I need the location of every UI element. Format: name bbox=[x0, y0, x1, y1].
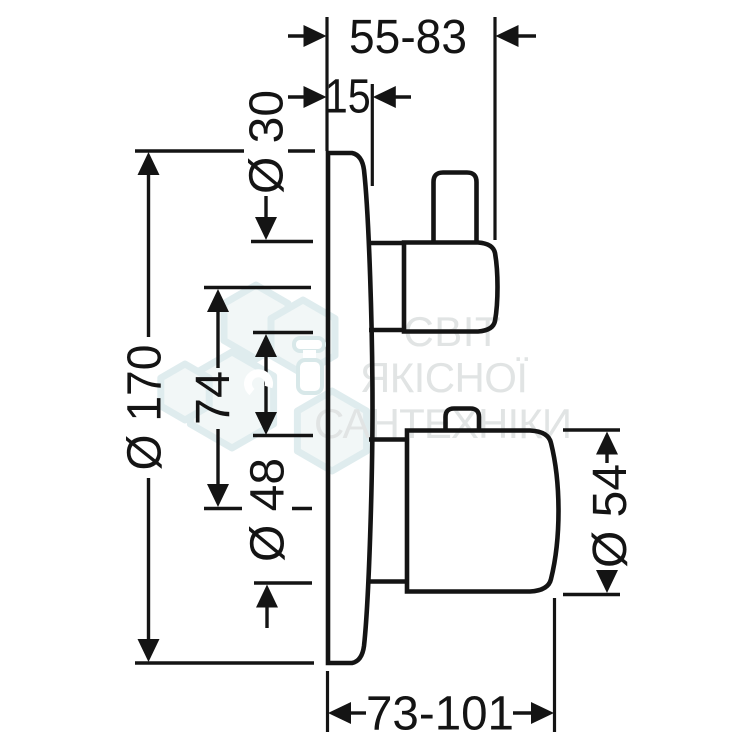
dimension 55-83 left arrow tail bbox=[288, 34, 305, 37]
dimension 73-101 left extension line bbox=[326, 671, 329, 732]
dimension 73-101 right arrow bbox=[531, 702, 554, 724]
dimension Ø170 bottom arrow bbox=[138, 639, 160, 662]
svg-text:Ø 48: Ø 48 bbox=[242, 458, 295, 562]
dimension Ø30 lower arrow bbox=[255, 334, 277, 357]
dimension Ø48 lower arrow bbox=[256, 585, 278, 608]
dimension Ø54 bottom arrow bbox=[596, 570, 618, 593]
thermostat knob bbox=[446, 409, 480, 430]
svg-text:15: 15 bbox=[325, 71, 371, 124]
watermark white curl bbox=[248, 373, 269, 392]
dimension 15 left arrow bbox=[304, 86, 327, 108]
escutcheon plate outline bbox=[328, 153, 373, 663]
dimension Ø48 upper arrow bbox=[255, 412, 277, 435]
dimension 74 line bbox=[216, 311, 219, 485]
shut-off valve knob bbox=[434, 173, 477, 243]
dimension 15 right extension line bbox=[371, 84, 374, 186]
dimension Ø54 line bbox=[605, 453, 608, 572]
watermark hexagon logo bbox=[161, 285, 367, 471]
shut-off valve handle body bbox=[404, 243, 498, 332]
svg-text:73-101: 73-101 bbox=[366, 688, 514, 741]
dimension Ø30 lower tick bbox=[253, 331, 313, 335]
dimension Ø54 bottom tick bbox=[563, 593, 620, 597]
svg-text:Ø 54: Ø 54 bbox=[584, 464, 637, 568]
shut-off valve sleeve bottom edge bbox=[369, 328, 404, 333]
dimension 55-83 right arrow tail bbox=[516, 34, 536, 37]
dimension 55-83 right extension line bbox=[493, 17, 496, 240]
dimension Ø170 top arrow bbox=[138, 152, 160, 175]
thermostat sleeve bottom edge bbox=[367, 579, 407, 584]
dimension 55-83 left arrow bbox=[304, 25, 327, 47]
svg-text:55-83: 55-83 bbox=[349, 11, 467, 64]
dimension 15 right arrow tail bbox=[393, 95, 411, 98]
dimension Ø30 upper tick bbox=[251, 240, 313, 244]
dimension 74 bottom tick bbox=[204, 507, 312, 511]
dimension 15 right arrow bbox=[373, 86, 396, 108]
dimension 74 top arrow bbox=[207, 289, 229, 312]
dimension Ø48 upper tick bbox=[253, 434, 313, 438]
connector line between Ø30 and Ø48 arrows bbox=[264, 356, 267, 413]
dimension Ø54 top arrow bbox=[596, 432, 618, 455]
svg-text:САНТЕХНІКИ: САНТЕХНІКИ bbox=[314, 400, 572, 447]
dimension 74 bottom arrow bbox=[207, 484, 229, 507]
dimension 73-101 left arrow bbox=[328, 702, 351, 724]
svg-text:Ø 170: Ø 170 bbox=[119, 345, 172, 471]
thermostat sleeve top edge bbox=[369, 437, 407, 442]
dimension 55-83 left extension line bbox=[325, 17, 328, 151]
dimension Ø54 top tick bbox=[563, 428, 620, 432]
dimension Ø170 line bbox=[147, 170, 150, 645]
dimension Ø48 line lower bbox=[265, 606, 268, 628]
dimension 73-101 line left bbox=[350, 711, 366, 714]
dimension Ø30 upper arrow bbox=[255, 217, 277, 240]
dimension Ø170 bottom extension line bbox=[135, 661, 314, 665]
dimension 73-101 right extension line bbox=[553, 598, 556, 732]
thermostat handle body bbox=[407, 431, 559, 592]
dimension 74 top tick bbox=[204, 286, 311, 290]
dimension Ø170 top extension line bbox=[135, 149, 315, 153]
watermark white faucet icon bbox=[294, 338, 324, 393]
dimension 15 left arrow tail bbox=[288, 95, 305, 98]
dimension Ø48 lower tick bbox=[254, 581, 312, 585]
shut-off valve sleeve top edge bbox=[369, 241, 404, 246]
dimension Ø30 line upper bbox=[264, 196, 267, 218]
svg-text:ЯКІСНОЇ: ЯКІСНОЇ bbox=[360, 354, 528, 401]
svg-text:74: 74 bbox=[187, 371, 240, 425]
dimension 73-101 line right bbox=[513, 711, 532, 714]
dimension 55-83 right arrow bbox=[496, 25, 519, 47]
svg-text:Ø 30: Ø 30 bbox=[241, 90, 294, 194]
